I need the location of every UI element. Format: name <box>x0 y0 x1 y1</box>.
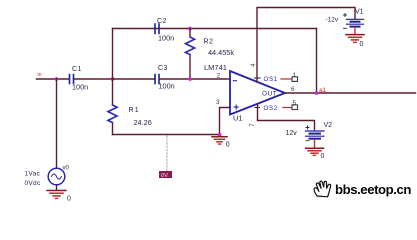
wire: C3 to op-amp inverting input <box>159 78 230 80</box>
svg-text:U1: U1 <box>233 114 243 123</box>
junction dot a1 <box>315 91 319 95</box>
V2 plus mark <box>306 126 309 129</box>
capacitor C2 <box>155 24 159 34</box>
svg-text:12v: 12v <box>286 130 298 137</box>
svg-text:100n: 100n <box>158 34 174 43</box>
svg-text:a1: a1 <box>319 87 327 94</box>
battery V1 <box>347 19 364 26</box>
svg-text:V1: V1 <box>355 9 364 16</box>
V1 ground stub <box>354 27 356 34</box>
svg-text:-12v: -12v <box>326 17 339 24</box>
svg-text:OUT: OUT <box>262 91 277 98</box>
plus input mark <box>234 105 238 109</box>
svg-text:100n: 100n <box>159 82 175 91</box>
junction dot inverting node <box>188 77 192 81</box>
svg-text:C3: C3 <box>158 65 168 72</box>
svg-text:bbs.eetop.cn: bbs.eetop.cn <box>335 182 411 197</box>
ground 0 under V1 <box>346 35 364 43</box>
watermark hand icon <box>314 181 331 197</box>
svg-text:0: 0 <box>67 196 71 203</box>
wire: C1 to node A <box>74 78 113 80</box>
junction dot at R2 top <box>188 27 192 31</box>
svg-text:C2: C2 <box>157 18 167 25</box>
wire: pin4 riser to negative supply <box>257 8 355 83</box>
svg-text:0: 0 <box>321 153 325 160</box>
pin5 open square <box>292 105 298 110</box>
ground 0 at bottom rail <box>212 137 227 144</box>
op-amp U1 triangle <box>230 71 285 115</box>
svg-text:100n: 100n <box>72 83 88 92</box>
pin1 stub wire <box>281 78 292 80</box>
wire: pin7 to positive supply <box>258 104 315 130</box>
V2 minus mark <box>306 140 309 142</box>
svg-text:24.26: 24.26 <box>134 118 152 127</box>
resistor R2 <box>186 29 195 80</box>
node A junction dot <box>111 77 115 81</box>
svg-text:7: 7 <box>249 123 256 127</box>
svg-text:2: 2 <box>217 73 221 80</box>
svg-text:3: 3 <box>216 99 220 106</box>
pin4 base tick <box>255 77 261 79</box>
wire: pin3 riser and stub <box>220 108 231 135</box>
resistor R1 <box>108 79 117 135</box>
svg-text:in: in <box>38 72 42 78</box>
svg-text:0V: 0V <box>161 173 168 179</box>
pin1 open square <box>292 77 298 82</box>
minus input mark <box>233 80 236 82</box>
svg-text:0: 0 <box>226 142 230 149</box>
V1 plus mark <box>344 14 347 17</box>
svg-text:R1: R1 <box>129 107 140 114</box>
V1 minus mark <box>344 27 347 29</box>
svg-text:44.455k: 44.455k <box>208 48 234 57</box>
wire: output <box>285 92 416 94</box>
svg-text:OS1: OS1 <box>264 76 278 83</box>
capacitor C3 <box>155 75 159 84</box>
svg-text:6: 6 <box>291 86 295 93</box>
V2 ground stub <box>314 140 316 148</box>
wire: feedback riser from output <box>316 29 318 94</box>
ground 0 under V2 <box>306 148 324 155</box>
pin5 stub wire <box>283 107 292 109</box>
svg-text:LM741: LM741 <box>204 63 227 72</box>
svg-text:OS2: OS2 <box>264 105 278 112</box>
svg-text:C1: C1 <box>72 66 82 73</box>
wire: riser node A up to top wire <box>112 29 114 80</box>
capacitor C1 <box>70 75 74 84</box>
bias dotted line <box>166 136 168 171</box>
wire: node A to C3 <box>113 78 156 80</box>
svg-text:5: 5 <box>293 100 297 107</box>
svg-text:0: 0 <box>360 41 364 48</box>
svg-text:1: 1 <box>293 72 297 79</box>
AC source v0 <box>48 168 65 185</box>
node junction dot at (56.5,79) <box>55 77 59 81</box>
pin7 base tick <box>255 107 260 109</box>
bias voltage box 0V <box>159 171 172 178</box>
battery V2 <box>306 131 325 139</box>
wire: down to v0 source <box>56 79 58 168</box>
svg-text:V2: V2 <box>324 122 333 129</box>
svg-text:v0: v0 <box>63 166 70 172</box>
wire: bottom ground rail <box>113 134 220 136</box>
svg-text:R2: R2 <box>204 39 214 46</box>
wire: v0 bottom stub <box>56 185 58 190</box>
ground 0 under v0 <box>47 191 66 199</box>
wire: input to C1 <box>37 78 70 80</box>
wire: top feedback rail <box>113 28 317 30</box>
svg-text:4: 4 <box>250 63 257 67</box>
junction dot at ground <box>218 133 222 137</box>
svg-text:1Vac: 1Vac <box>25 171 41 178</box>
svg-text:0Vdc: 0Vdc <box>25 180 41 187</box>
